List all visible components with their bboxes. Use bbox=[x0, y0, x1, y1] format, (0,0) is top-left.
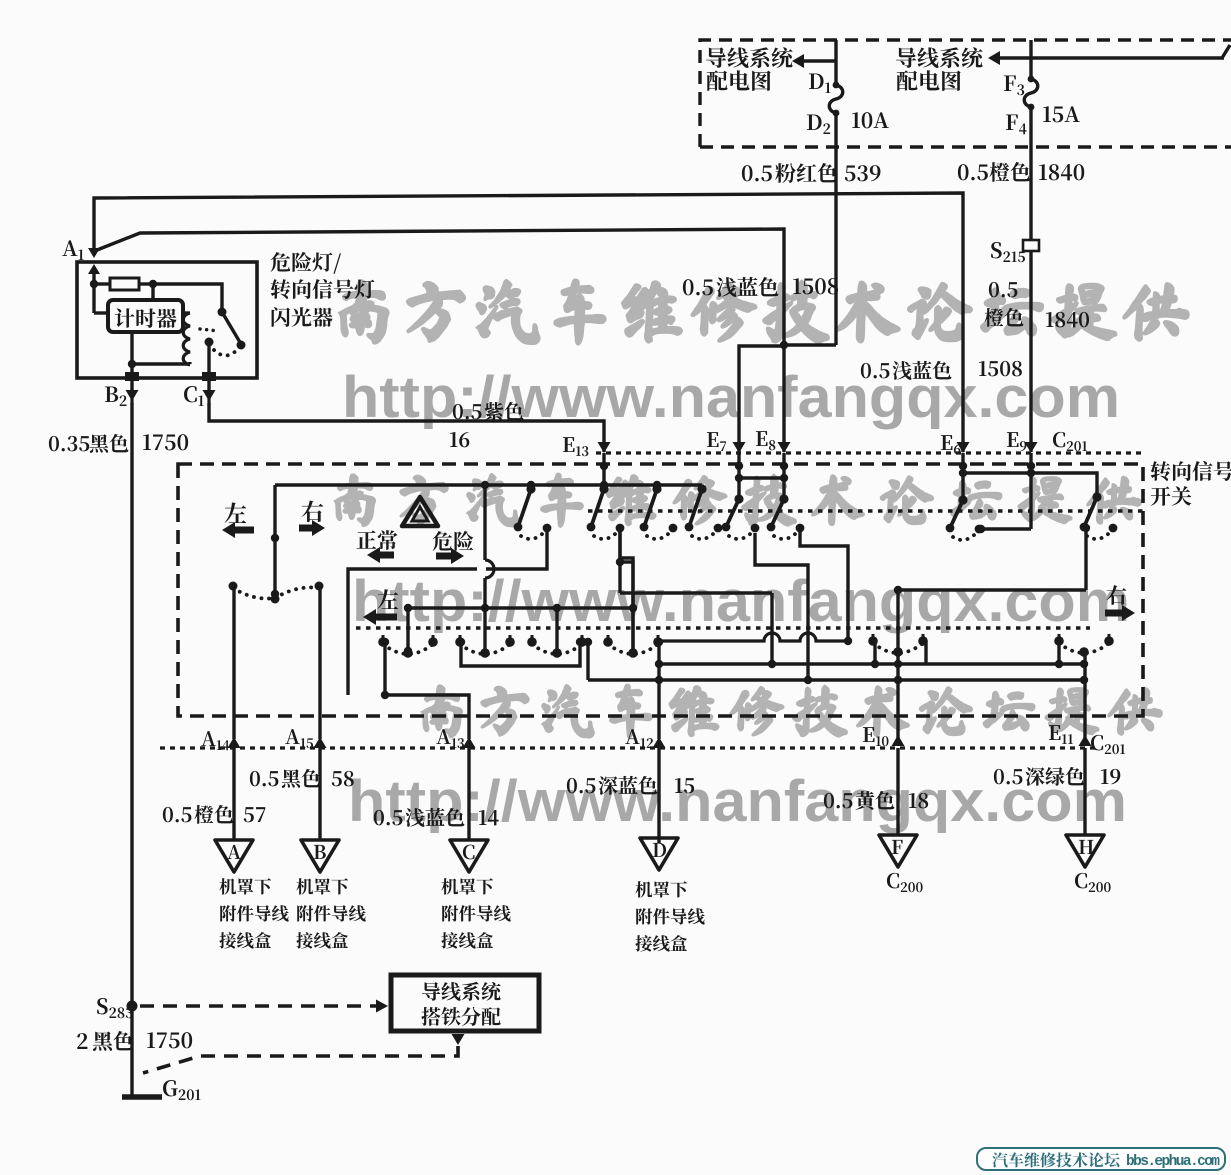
label A15 bbox=[285, 729, 313, 748]
wire A1 top feed bbox=[94, 193, 963, 452]
wire E7arc staircase bbox=[755, 533, 808, 680]
label E7 bbox=[707, 432, 726, 451]
label A1 bbox=[62, 240, 83, 260]
label right bbox=[299, 500, 325, 536]
stub 875 bbox=[875, 641, 926, 664]
label junction box D bbox=[635, 881, 704, 951]
contact L-557 bbox=[527, 635, 587, 658]
ground dist arrow down bbox=[452, 1034, 465, 1045]
label flasher name bbox=[271, 252, 375, 327]
wire coil bottom bbox=[132, 362, 190, 365]
wire A12 link Ha bbox=[659, 633, 848, 641]
hazard flasher box bbox=[77, 262, 257, 378]
contact L-408 bbox=[378, 635, 438, 658]
wire 18 yellow bbox=[896, 748, 899, 835]
contact arc left pair bbox=[229, 582, 324, 604]
label left bbox=[222, 502, 254, 538]
stub 1059 bbox=[1057, 641, 1060, 664]
label 0.5 yellow 18 bbox=[824, 791, 928, 810]
wire timer top bbox=[151, 284, 154, 300]
label wire-system 2 bbox=[896, 47, 983, 91]
svg-text:http://www.nanfangqx.com: http://www.nanfangqx.com bbox=[352, 569, 1130, 634]
wire A1 to timer bbox=[94, 311, 108, 314]
terminal B2 bbox=[105, 372, 139, 406]
label 0.5 ltblue 14 bbox=[374, 808, 499, 827]
turn signal switch dashed box bbox=[178, 464, 1143, 716]
contact U-1097 bbox=[1080, 492, 1118, 539]
contact U-657 bbox=[640, 484, 678, 539]
triangle connector F bbox=[879, 835, 917, 867]
contact U-E7 bbox=[722, 494, 760, 539]
label wire-system 1 bbox=[706, 47, 793, 91]
wire to power dist 2 bbox=[988, 45, 1230, 65]
fuse F3-F4 15A bbox=[1004, 40, 1080, 147]
splice S283 bbox=[97, 998, 137, 1018]
label 0.35 black bbox=[49, 434, 188, 453]
wire E9 into box bbox=[1027, 453, 1035, 529]
label left 2 bbox=[363, 589, 398, 625]
wire 547 to normal bus bbox=[348, 531, 547, 695]
label C201 top bbox=[1053, 432, 1087, 451]
contact U-E13 bbox=[587, 484, 625, 539]
label turn signal switch bbox=[1151, 461, 1231, 506]
label 0.5 pink 539 bbox=[742, 163, 881, 183]
bus Y590 bbox=[894, 586, 1086, 594]
label junction box C bbox=[441, 878, 510, 948]
stub 633 center bbox=[631, 608, 634, 653]
label 2 black 1750 bbox=[77, 1031, 192, 1051]
wire E8arc staircase bbox=[800, 532, 852, 645]
relay coil bbox=[183, 313, 190, 365]
watermark row2 bbox=[335, 474, 1140, 526]
wire to power dist 1 bbox=[792, 54, 836, 68]
wire E7 into box bbox=[735, 453, 743, 499]
terminal C1 bbox=[184, 372, 216, 406]
ground dist box bbox=[391, 975, 539, 1031]
label E13 bbox=[563, 437, 588, 456]
relay contact 2 bbox=[205, 338, 239, 379]
triangle connector H bbox=[1066, 835, 1104, 867]
label E11 bbox=[1049, 725, 1073, 744]
svg-text:http://www.nanfangqx.com: http://www.nanfangqx.com bbox=[348, 769, 1127, 834]
label E6 bbox=[941, 435, 961, 454]
label 0.5 dkgreen 19 bbox=[994, 767, 1120, 786]
bus Y680 bbox=[588, 676, 1088, 684]
label A13 bbox=[436, 729, 464, 748]
connector line bottom bbox=[160, 746, 1095, 749]
label 0.5 ltblue 1508 a bbox=[683, 277, 838, 297]
watermark url row1 bbox=[342, 365, 1120, 430]
wire B2 black 1750 bbox=[130, 403, 133, 1095]
wire hazard vertical 485 bbox=[481, 485, 494, 657]
label junction box A bbox=[219, 878, 288, 948]
label 0.5 purple bbox=[450, 402, 523, 447]
label E9 bbox=[1007, 432, 1027, 451]
label C200 F bbox=[887, 873, 923, 892]
stub 557 bbox=[553, 608, 561, 657]
label 0.5 black 58 bbox=[250, 769, 354, 788]
bus Y664 bbox=[659, 660, 1084, 668]
wire E6-E9 top link bbox=[959, 469, 1097, 499]
bus left Y608 bbox=[404, 604, 633, 612]
connector line C201 top bbox=[596, 451, 1145, 454]
hazard triangle symbol bbox=[402, 497, 438, 526]
label C200 H bbox=[1075, 873, 1111, 892]
wire 15 dkblue bbox=[657, 748, 660, 843]
relay contact link dots bbox=[200, 329, 219, 331]
wire A15 in box bbox=[318, 586, 321, 739]
wire R to contact bbox=[153, 284, 222, 310]
wire A12 in box bbox=[655, 638, 663, 739]
watermark url row2 bbox=[352, 569, 1130, 634]
wire 588 down bbox=[584, 638, 592, 680]
wire 14 ltblue bbox=[467, 748, 470, 839]
triangle connector B bbox=[301, 840, 339, 872]
label E8 bbox=[756, 431, 775, 450]
watermark url row3 bbox=[348, 769, 1127, 834]
wire 1086 from U1097 bbox=[1082, 524, 1090, 590]
label G201 bbox=[163, 1080, 201, 1100]
contact L-633 bbox=[603, 635, 663, 658]
label 0.5 dkblue 15 bbox=[567, 776, 694, 795]
wire 57 orange bbox=[232, 748, 235, 839]
wire E7 branch bbox=[739, 346, 784, 452]
label hazard bbox=[433, 531, 474, 564]
site badge bbox=[977, 1148, 1225, 1170]
wire timer bottom B2 bbox=[128, 332, 136, 378]
ground symbol bbox=[122, 1094, 162, 1100]
triangle connector D bbox=[640, 838, 678, 870]
wire 539 pink bbox=[780, 147, 836, 349]
wire E8 into box bbox=[780, 453, 788, 499]
ground dashed wire bbox=[140, 1000, 388, 1013]
contact L-485 bbox=[455, 635, 515, 658]
wire 275 from bus bbox=[271, 485, 279, 598]
label E10 bbox=[863, 727, 889, 746]
power distribution dashed box bbox=[700, 40, 1231, 147]
wire C1 purple 16 bbox=[209, 403, 604, 452]
wire E13arc run bbox=[616, 532, 776, 668]
watermark row3 bbox=[422, 685, 1161, 737]
movable bar dotted lower bbox=[356, 626, 1090, 629]
triangle connector C bbox=[450, 840, 488, 872]
contact U-E6 bbox=[946, 495, 984, 540]
wire E9-E6arc link bbox=[977, 525, 1031, 533]
connector arrows bottom bbox=[228, 735, 1092, 748]
wire E7-E8 link bbox=[739, 474, 788, 482]
wire E11 in box bbox=[1080, 652, 1088, 739]
ground dashed wire 2 bbox=[143, 1046, 458, 1073]
label normal bbox=[357, 530, 398, 563]
wire 58 black bbox=[318, 748, 321, 839]
wire E6 into box bbox=[959, 453, 967, 502]
wire A13 path bbox=[381, 638, 469, 739]
label C201 bottom bbox=[1091, 735, 1125, 754]
contact U-E8 bbox=[767, 494, 805, 539]
movable bar dotted upper bbox=[588, 509, 1143, 512]
label A12 bbox=[625, 729, 653, 748]
wire 19 dkgreen bbox=[1083, 748, 1086, 835]
resistor R bbox=[90, 278, 157, 290]
wire E10 in box bbox=[894, 590, 902, 739]
wire E13 into box bbox=[600, 453, 608, 489]
contact U-531 bbox=[514, 484, 552, 539]
fuse D1-D2 10A bbox=[807, 40, 889, 147]
stub 408 bbox=[404, 608, 412, 655]
watermark row1 bbox=[340, 280, 1188, 343]
triangle connector A bbox=[215, 840, 253, 872]
label 0.5 orange 57 bbox=[163, 805, 265, 824]
terminal A1 arrow bbox=[88, 248, 100, 313]
wire U 461-580 bbox=[457, 638, 584, 666]
contact L-1084 bbox=[1054, 634, 1114, 657]
bus Y485 bbox=[275, 481, 702, 489]
label right 2 bbox=[1105, 585, 1135, 621]
label 0.5 orange 1840 b bbox=[984, 282, 1089, 327]
label A14 bbox=[201, 731, 229, 750]
svg-text:bbs.ephua.com: bbs.ephua.com bbox=[1126, 1154, 1220, 1170]
wire arc2 to leftbus bbox=[620, 532, 637, 653]
timer box bbox=[108, 300, 183, 332]
splice S215 bbox=[991, 147, 1039, 452]
label junction box B bbox=[296, 878, 365, 948]
contact L-898 bbox=[868, 634, 928, 657]
contact U-702 bbox=[685, 484, 723, 539]
wire A14 in box bbox=[232, 586, 235, 739]
relay contact fixed bbox=[218, 308, 246, 350]
label 0.5 ltblue 1508 b bbox=[861, 361, 1022, 380]
connector arrows top bbox=[598, 442, 1038, 453]
wire A1 second feed bbox=[97, 229, 784, 452]
label 0.5 orange 1840 bbox=[958, 162, 1084, 182]
